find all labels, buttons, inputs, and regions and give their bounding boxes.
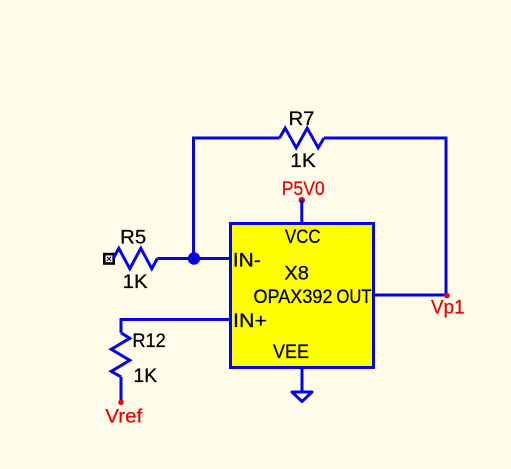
svg-text:R7: R7	[289, 108, 315, 130]
wire right vertical	[445, 137, 448, 296]
wire OUT to right vertical	[374, 294, 448, 297]
ground symbol	[292, 392, 312, 402]
svg-text:R12: R12	[132, 330, 166, 352]
P5V0 connection dot	[299, 197, 305, 203]
wire R5 to IN-	[157, 257, 231, 260]
wire VEE to ground	[301, 367, 304, 391]
wire IN+ horizontal	[121, 318, 231, 321]
Vref connection dot	[118, 400, 124, 406]
input terminal square	[103, 253, 115, 265]
resistor R12	[111, 333, 130, 377]
wire top horizontal right segment	[324, 137, 446, 140]
Vp1 connection dot	[444, 293, 450, 299]
wire R12 to Vref	[120, 377, 123, 402]
op-amp U1 X8 body	[231, 224, 374, 368]
svg-text:VEE: VEE	[273, 341, 309, 363]
svg-text:OPAX392: OPAX392	[254, 286, 333, 308]
svg-text:X8: X8	[284, 262, 309, 284]
wire feedback left vertical	[192, 138, 195, 259]
svg-text:R5: R5	[120, 226, 146, 248]
wire IN+ vertical to R12	[120, 318, 123, 333]
svg-text:P5V0: P5V0	[282, 178, 325, 200]
svg-text:VCC: VCC	[285, 226, 321, 248]
wire VCC stub	[300, 200, 303, 224]
svg-text:IN-: IN-	[233, 249, 261, 271]
node junction dot	[188, 252, 200, 264]
svg-text:1K: 1K	[134, 365, 158, 387]
wire top horizontal left segment	[192, 137, 280, 140]
svg-text:IN+: IN+	[233, 310, 267, 332]
svg-text:1K: 1K	[123, 271, 148, 293]
svg-text:Vp1: Vp1	[431, 297, 465, 319]
resistor R5	[113, 248, 157, 268]
svg-text:Vref: Vref	[105, 406, 143, 428]
resistor R7	[280, 128, 325, 148]
svg-text:OUT: OUT	[337, 286, 372, 308]
svg-text:1K: 1K	[290, 150, 316, 172]
